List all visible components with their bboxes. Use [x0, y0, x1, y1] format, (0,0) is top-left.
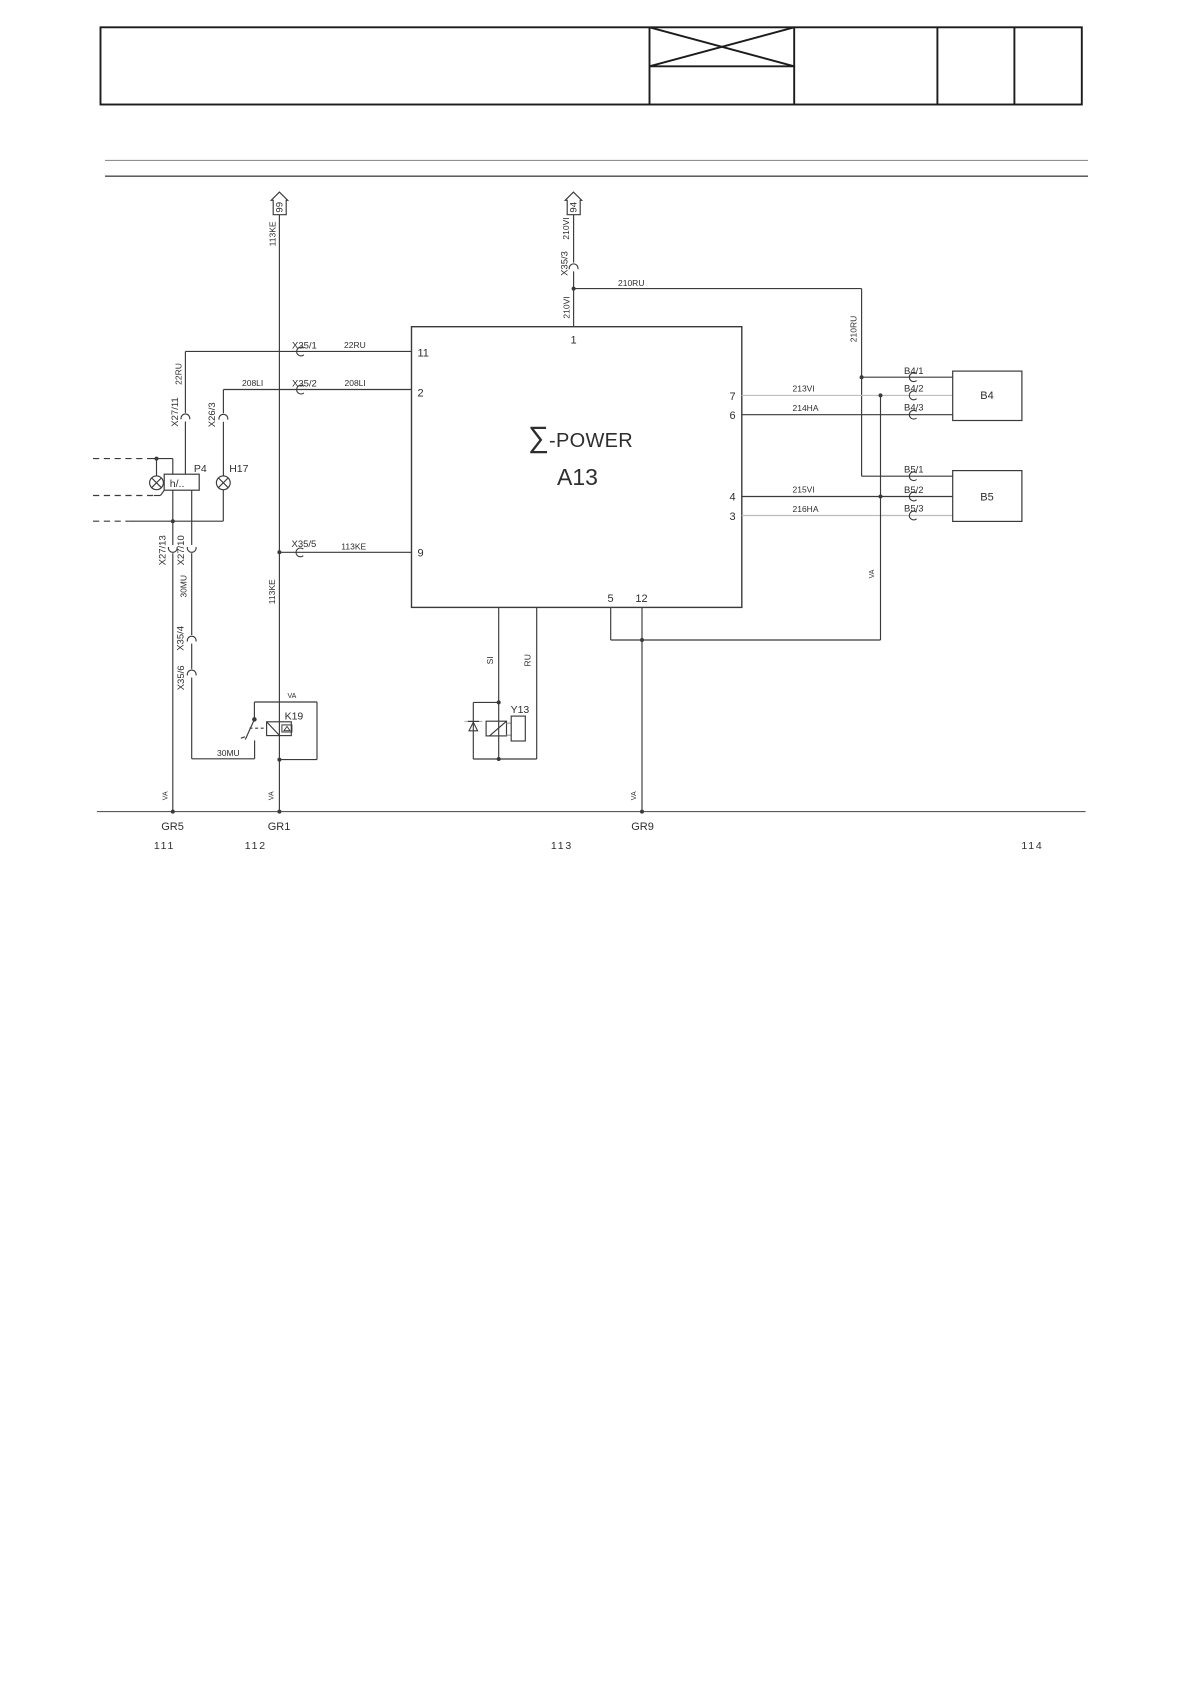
svg-text:99: 99 — [274, 202, 285, 213]
wire 210VI vertical from arrow 94 — [573, 215, 575, 327]
svg-text:213VI: 213VI — [793, 384, 815, 394]
svg-text:GR1: GR1 — [268, 821, 291, 833]
svg-text:VA: VA — [869, 569, 876, 578]
ground GR1 — [268, 810, 291, 833]
wire pin 5 drop — [610, 607, 612, 640]
horizontal rule upper — [105, 159, 1088, 161]
title block crossed cell — [650, 27, 795, 66]
wire 208LI vertical drop to H17 — [222, 390, 224, 476]
dashed feed upper — [93, 459, 173, 476]
connector B4/1 — [904, 366, 924, 382]
svg-text:114: 114 — [1021, 840, 1043, 852]
ground GR5 — [161, 810, 184, 833]
horizontal rule lower — [105, 175, 1088, 177]
svg-text:h/..: h/.. — [170, 478, 185, 490]
svg-text:X35/5: X35/5 — [292, 539, 317, 550]
svg-text:X27/10: X27/10 — [176, 535, 187, 565]
svg-text:210VI: 210VI — [561, 217, 571, 239]
svg-text:X35/1: X35/1 — [292, 341, 317, 352]
svg-text:9: 9 — [418, 548, 424, 560]
node junction K19 bottom — [277, 758, 281, 762]
svg-text:113: 113 — [551, 840, 573, 852]
svg-text:B4/2: B4/2 — [904, 383, 924, 394]
node junction VA at 215VI — [879, 495, 883, 499]
svg-text:111: 111 — [154, 840, 175, 852]
svg-text:VA: VA — [163, 791, 170, 800]
node junction P4 feed — [155, 457, 159, 461]
solenoid valve Y13 — [486, 716, 525, 741]
connector X27/11 — [170, 397, 190, 426]
svg-text:3: 3 — [730, 511, 736, 523]
svg-text:30MU: 30MU — [179, 575, 189, 598]
svg-text:113KE: 113KE — [267, 579, 277, 604]
wire B4/1 branch — [862, 376, 953, 378]
wire 216HA pin 3 to B5/3 (light) — [742, 515, 953, 517]
svg-text:12: 12 — [635, 593, 647, 605]
svg-text:-POWER: -POWER — [549, 430, 633, 452]
svg-text:22RU: 22RU — [174, 363, 184, 385]
wire 30MU from lamp box — [192, 490, 255, 759]
svg-text:208LI: 208LI — [345, 378, 366, 388]
wire 113KE pin 9 horizontal — [279, 551, 411, 553]
lamp holder box h/.. — [164, 474, 199, 490]
svg-text:11: 11 — [418, 348, 429, 360]
wire 22RU pin 11 horizontal — [185, 350, 411, 352]
svg-text:GR9: GR9 — [631, 821, 654, 833]
svg-text:22RU: 22RU — [344, 340, 366, 350]
ground GR9 — [631, 810, 654, 833]
wire RU from pin below A13 — [473, 607, 536, 759]
svg-text:B5/3: B5/3 — [904, 504, 924, 515]
wire 213VI pin 7 to B4/2 (light) — [742, 394, 953, 396]
svg-text:210RU: 210RU — [618, 278, 644, 288]
wire SI from pin below A13 — [498, 607, 500, 759]
svg-text:112: 112 — [245, 840, 267, 852]
connector X35/5 — [292, 539, 317, 557]
svg-text:B4: B4 — [980, 390, 993, 402]
connector B4/2 — [904, 383, 924, 399]
svg-text:X35/4: X35/4 — [176, 626, 187, 651]
svg-text:X27/11: X27/11 — [170, 397, 181, 426]
svg-text:VA: VA — [288, 693, 297, 700]
connector B5/2 — [904, 485, 924, 501]
wire H17 down to dashed row — [222, 490, 224, 522]
svg-text:K19: K19 — [285, 711, 304, 723]
wire 208LI pin 2 horizontal — [223, 389, 411, 391]
ground bus — [97, 811, 1086, 813]
svg-text:7: 7 — [730, 391, 736, 403]
connector X35/2 — [292, 379, 317, 394]
svg-text:A13: A13 — [557, 464, 598, 490]
wire VA bottom horizontal — [611, 639, 881, 641]
sensor B5 — [953, 471, 1022, 522]
svg-text:2: 2 — [418, 388, 424, 400]
connector X35/6 — [176, 665, 196, 690]
svg-text:215VI: 215VI — [793, 485, 815, 495]
svg-text:210VI: 210VI — [562, 296, 572, 318]
wire pin 12 to ground — [641, 607, 643, 811]
connector B5/3 — [904, 504, 924, 520]
svg-text:GR5: GR5 — [161, 821, 184, 833]
node junction VA at 213VI — [879, 393, 883, 397]
svg-text:4: 4 — [730, 492, 736, 504]
svg-text:H17: H17 — [229, 463, 248, 475]
connector X35/4 — [176, 626, 197, 651]
svg-text:∑: ∑ — [528, 421, 549, 454]
node junction B4/1 tap — [860, 375, 864, 379]
svg-text:RU: RU — [522, 654, 532, 666]
svg-text:1: 1 — [571, 335, 577, 347]
connector B4/3 — [904, 403, 924, 419]
sensor B4 — [953, 371, 1022, 420]
node junction Y13 bottom — [497, 757, 501, 761]
connector X27/13 — [158, 535, 178, 565]
svg-text:210RU: 210RU — [849, 316, 859, 342]
wire 215VI pin 4 to B5/2 — [742, 496, 953, 498]
relay K19 frame — [254, 702, 317, 760]
diode V1 — [465, 721, 483, 730]
lamp P4 — [150, 476, 164, 490]
svg-text:208LI: 208LI — [242, 378, 263, 388]
node junction pin9 tap — [277, 550, 281, 554]
svg-text:X26/3: X26/3 — [207, 402, 218, 427]
node junction VA left — [171, 519, 175, 523]
connector X35/1 — [292, 341, 317, 356]
dashed feed middle — [93, 490, 164, 495]
off-page arrow 94 — [565, 192, 582, 215]
svg-text:6: 6 — [730, 410, 736, 422]
svg-text:X35/3: X35/3 — [560, 251, 571, 276]
wire 210RU horizontal — [574, 288, 862, 290]
svg-text:B4/3: B4/3 — [904, 403, 924, 414]
node junction pin12 line — [640, 638, 644, 642]
node junction Y13 top — [497, 700, 501, 704]
wire 113KE vertical from arrow 99 — [278, 215, 280, 812]
svg-text:VA: VA — [269, 791, 276, 800]
svg-text:VA: VA — [631, 791, 638, 800]
off-page arrow 99 — [271, 192, 288, 215]
title block frame — [101, 27, 1082, 104]
svg-text:X35/2: X35/2 — [292, 379, 317, 390]
svg-text:94: 94 — [568, 202, 579, 213]
svg-text:B5/1: B5/1 — [904, 464, 924, 475]
svg-text:X27/13: X27/13 — [158, 535, 169, 565]
svg-text:216HA: 216HA — [793, 504, 819, 514]
wire B5/1 branch — [862, 475, 953, 477]
relay K19 coil — [267, 722, 292, 736]
connector X26/3 — [207, 402, 228, 427]
svg-text:X35/6: X35/6 — [176, 665, 187, 690]
svg-text:B5: B5 — [980, 492, 993, 504]
wire 22RU vertical drop — [184, 351, 186, 474]
svg-text:B4/1: B4/1 — [904, 366, 924, 377]
connector B5/1 — [904, 464, 924, 480]
lamp H17 — [216, 476, 230, 490]
wire VA right vertical — [880, 395, 882, 640]
svg-text:113KE: 113KE — [341, 542, 366, 552]
wire VA left vertical to GR5 — [172, 490, 174, 811]
svg-text:SI: SI — [485, 656, 495, 664]
wire 214HA pin 6 to B4/3 — [742, 414, 953, 416]
svg-text:113KE: 113KE — [268, 221, 278, 246]
svg-text:30MU: 30MU — [217, 748, 240, 758]
dashed feed lower — [93, 520, 223, 522]
suppressor diode branch — [473, 702, 498, 759]
control unit U A13 — [412, 327, 742, 608]
relay K19 contact — [241, 718, 256, 759]
connector X35/3 — [560, 251, 578, 276]
relay K19 linkage — [250, 727, 267, 729]
svg-text:214HA: 214HA — [793, 403, 819, 413]
svg-text:Y13: Y13 — [511, 704, 530, 716]
svg-text:5: 5 — [608, 593, 614, 605]
connector X27/10 — [176, 535, 196, 565]
node junction 210RU tap — [572, 287, 576, 291]
svg-text:P4: P4 — [194, 463, 207, 475]
svg-text:B5/2: B5/2 — [904, 485, 924, 496]
wire 210RU vertical — [861, 289, 863, 477]
